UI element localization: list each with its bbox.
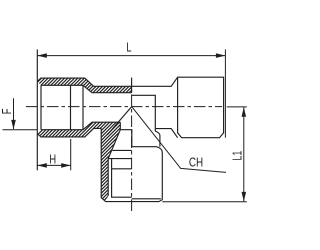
svg-text:L: L [126, 41, 131, 55]
svg-text:L1: L1 [231, 151, 245, 161]
svg-text:CH: CH [189, 157, 203, 171]
svg-text:H: H [49, 153, 56, 167]
svg-text:F: F [1, 109, 15, 115]
